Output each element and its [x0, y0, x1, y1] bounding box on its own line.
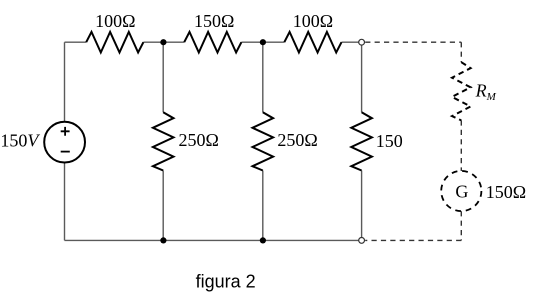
- svg-text:150: 150: [376, 131, 403, 151]
- svg-text:150V: 150V: [0, 131, 40, 151]
- svg-text:RM: RM: [475, 81, 497, 103]
- svg-text:100Ω: 100Ω: [293, 11, 333, 31]
- svg-text:G: G: [455, 182, 468, 202]
- svg-text:150Ω: 150Ω: [486, 182, 526, 202]
- svg-text:250Ω: 250Ω: [179, 130, 219, 150]
- svg-text:250Ω: 250Ω: [277, 130, 317, 150]
- svg-text:150Ω: 150Ω: [194, 11, 234, 31]
- svg-text:figura 2: figura 2: [196, 272, 256, 292]
- svg-text:100Ω: 100Ω: [95, 11, 135, 31]
